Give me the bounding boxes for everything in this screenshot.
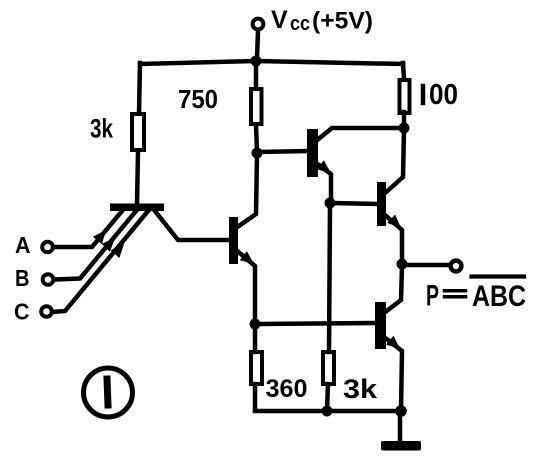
wire Vcc stub — [257, 31, 258, 58]
wire rail to R2 — [254, 62, 259, 88]
figure number circled 1 — [84, 368, 133, 417]
svg-text:00: 00 — [429, 79, 458, 111]
wire top supply rail — [140, 61, 403, 64]
overbar of ABC — [472, 274, 525, 278]
transistor Q5 base bar — [375, 302, 386, 349]
resistor R4 360 — [251, 352, 262, 384]
wire node N4 to R5 — [329, 205, 330, 352]
resistor R5 3k — [323, 352, 334, 384]
wire Q3 emitter to node N4 — [316, 163, 331, 201]
node Vcc junction — [251, 56, 262, 67]
svg-text:3k: 3k — [90, 114, 114, 144]
node N1 junction — [252, 148, 263, 159]
transistor Q3 base bar — [307, 129, 318, 177]
wire Q4 emitter to output node — [384, 214, 402, 262]
output terminal P circle — [451, 261, 462, 272]
Q1 emitter arrow 2 — [102, 238, 116, 252]
wire rail to R3 — [403, 63, 404, 79]
wire Q5 emitter to ground rail — [384, 337, 402, 410]
transistor Q4 base bar — [377, 182, 386, 226]
wire Q2 emitter — [236, 250, 255, 322]
wire Q5 collector to output node — [384, 266, 402, 313]
wire left rail to R1 — [139, 63, 140, 113]
wire R3 to node N2 — [402, 112, 407, 126]
svg-text:V: V — [271, 6, 288, 34]
node N4 junction (Q3 emitter / Q4 base / R5) — [325, 198, 336, 209]
node ground rail junction at R5 — [322, 406, 333, 417]
Q5 emitter arrow — [386, 336, 400, 349]
node ground rail junction at Q5 emitter — [395, 405, 407, 417]
wire Q4 collector to node N2 — [384, 130, 404, 194]
input terminal C circle — [41, 306, 52, 317]
Q3 emitter arrow — [317, 160, 331, 173]
svg-text:P: P — [426, 280, 439, 313]
label 100 (R3) — [421, 86, 426, 103]
wire Q1 emitter 3 to input C — [52, 211, 148, 312]
Q2 emitter arrow — [240, 251, 254, 264]
wire node N4 to Q4 base — [332, 203, 377, 204]
transistor Q1 multi-emitter base bar — [110, 204, 164, 212]
wire Q1 emitter 1 to input A — [54, 211, 122, 247]
wire ground stub — [398, 413, 403, 441]
resistor R3 100 — [400, 80, 410, 113]
wire ground rail — [255, 409, 402, 414]
Vcc terminal circle — [253, 19, 264, 30]
wire Q1 collector to Q2 base — [155, 211, 229, 240]
Q4 emitter arrow — [387, 215, 401, 229]
wire R5 to ground rail — [327, 384, 328, 410]
node N2 junction — [399, 123, 410, 134]
transistor Q2 base bar — [229, 217, 238, 264]
wire Q3 collector to node N2 — [316, 128, 402, 141]
svg-text:3k: 3k — [343, 374, 378, 404]
node N3 junction (Q2 emitter / R4 / Q5 base) — [250, 319, 261, 330]
svg-text:A: A — [15, 232, 31, 258]
Q1 emitter arrow 1 — [93, 230, 106, 244]
svg-text:360: 360 — [266, 375, 308, 403]
wire node N3 to Q5 base — [257, 323, 375, 324]
input terminal A circle — [42, 242, 53, 253]
wire node N1 to Q3 base — [259, 151, 307, 152]
svg-text:C: C — [14, 299, 30, 325]
svg-text:750: 750 — [178, 84, 218, 114]
svg-text:cc: cc — [290, 13, 310, 35]
wire R4 to ground rail — [253, 384, 258, 410]
svg-text:B: B — [15, 265, 30, 291]
Q1 emitter arrow 3 — [111, 244, 124, 258]
node N5 output junction — [397, 259, 408, 270]
wire Q2 collector to node N1 — [236, 155, 257, 228]
wire output to terminal P — [404, 263, 449, 268]
wire node N3 to R4 — [253, 326, 258, 352]
input terminal B circle — [43, 274, 54, 285]
wire Q1 emitter 2 to input B — [54, 211, 136, 280]
wire R2 to node N1 — [256, 125, 257, 151]
resistor R1 3k — [132, 114, 144, 150]
svg-text:ABC: ABC — [472, 280, 526, 313]
resistor R2 750 — [251, 89, 262, 124]
wire R1 to Q1 base — [137, 151, 138, 205]
ground symbol — [381, 441, 421, 451]
svg-text:(+5V): (+5V) — [312, 8, 373, 35]
